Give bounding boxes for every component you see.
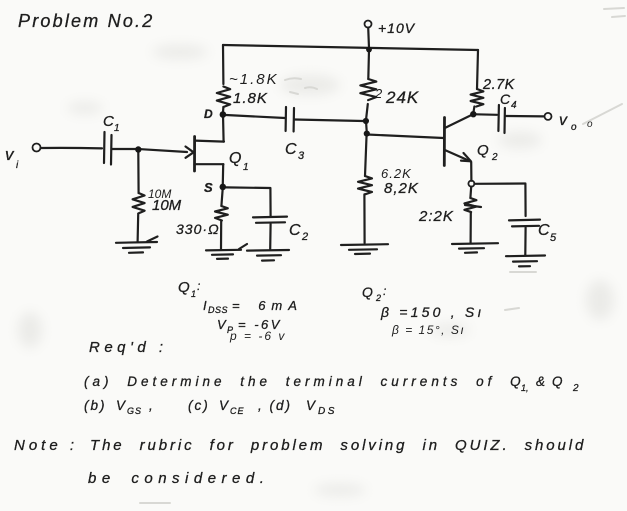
svg-text:2: 2	[491, 152, 498, 163]
svg-text:8,2K: 8,2K	[384, 180, 419, 197]
svg-text:1: 1	[191, 289, 196, 299]
svg-text:2: 2	[572, 383, 579, 394]
svg-text:(c): (c)	[188, 398, 210, 413]
svg-text:D: D	[204, 107, 213, 121]
svg-text:β = 15°, Sı: β = 15°, Sı	[391, 323, 465, 337]
svg-text:6.2K: 6.2K	[381, 166, 412, 181]
svg-text:2.7K: 2.7K	[482, 77, 516, 93]
svg-text:C: C	[500, 91, 511, 107]
svg-text:Q: Q	[477, 142, 489, 159]
svg-text:1: 1	[243, 162, 249, 173]
svg-text:(a) Determine the terminal cur: (a) Determine the terminal currents of Q	[84, 374, 525, 389]
svg-text:~1.8K: ~1.8K	[229, 71, 279, 88]
svg-text::: :	[197, 279, 200, 293]
svg-text:= -6V: = -6V	[238, 317, 282, 332]
svg-text:+10V: +10V	[378, 20, 416, 36]
svg-text:β =150 , Sı: β =150 , Sı	[380, 304, 485, 320]
svg-text:Q: Q	[178, 279, 190, 296]
svg-text:1.8K: 1.8K	[233, 90, 268, 107]
svg-text:2:2K: 2:2K	[418, 208, 454, 225]
svg-text:Q: Q	[552, 374, 563, 389]
svg-text:C: C	[538, 222, 550, 239]
svg-text:,: ,	[149, 398, 153, 413]
svg-text:o: o	[587, 119, 593, 130]
svg-text:V: V	[217, 317, 227, 332]
svg-text:10M: 10M	[152, 197, 182, 214]
svg-text:1: 1	[114, 123, 120, 134]
svg-text:DSS: DSS	[208, 305, 228, 315]
svg-text:S: S	[204, 180, 213, 195]
svg-text:= 6mA: = 6mA	[232, 298, 303, 313]
svg-text:3: 3	[298, 150, 305, 162]
svg-text:(b): (b)	[84, 398, 107, 413]
svg-text:4: 4	[511, 100, 517, 111]
svg-text:Problem No.2: Problem No.2	[18, 11, 154, 31]
svg-text:24K: 24K	[385, 88, 419, 107]
svg-text:P: P	[227, 325, 233, 335]
svg-text:2: 2	[375, 293, 381, 303]
svg-text:o: o	[571, 122, 577, 133]
svg-text:v: v	[559, 112, 568, 129]
svg-text:C: C	[289, 222, 301, 239]
svg-text:C: C	[103, 113, 114, 130]
svg-text:GS: GS	[127, 406, 142, 416]
svg-text:Req'd :: Req'd :	[89, 339, 168, 356]
svg-text:DS: DS	[318, 406, 337, 417]
svg-text:2: 2	[301, 231, 308, 243]
svg-text:The rubric for problem solving: The rubric for problem solving in QUIZ. …	[90, 437, 586, 454]
svg-text:, (d): , (d)	[258, 398, 292, 413]
svg-text:5: 5	[550, 232, 557, 244]
svg-text:&: &	[536, 374, 545, 389]
svg-text::: :	[383, 284, 386, 298]
svg-text:330·Ω: 330·Ω	[176, 221, 220, 237]
svg-text:Note :: Note :	[14, 437, 78, 454]
svg-text:Q: Q	[229, 150, 241, 167]
svg-text:I: I	[203, 298, 207, 313]
svg-text:be considered.: be considered.	[88, 470, 269, 487]
svg-text:C: C	[285, 141, 297, 158]
svg-text:1,: 1,	[521, 383, 529, 393]
svg-text:CE: CE	[230, 406, 245, 416]
svg-text:Q: Q	[362, 284, 373, 300]
